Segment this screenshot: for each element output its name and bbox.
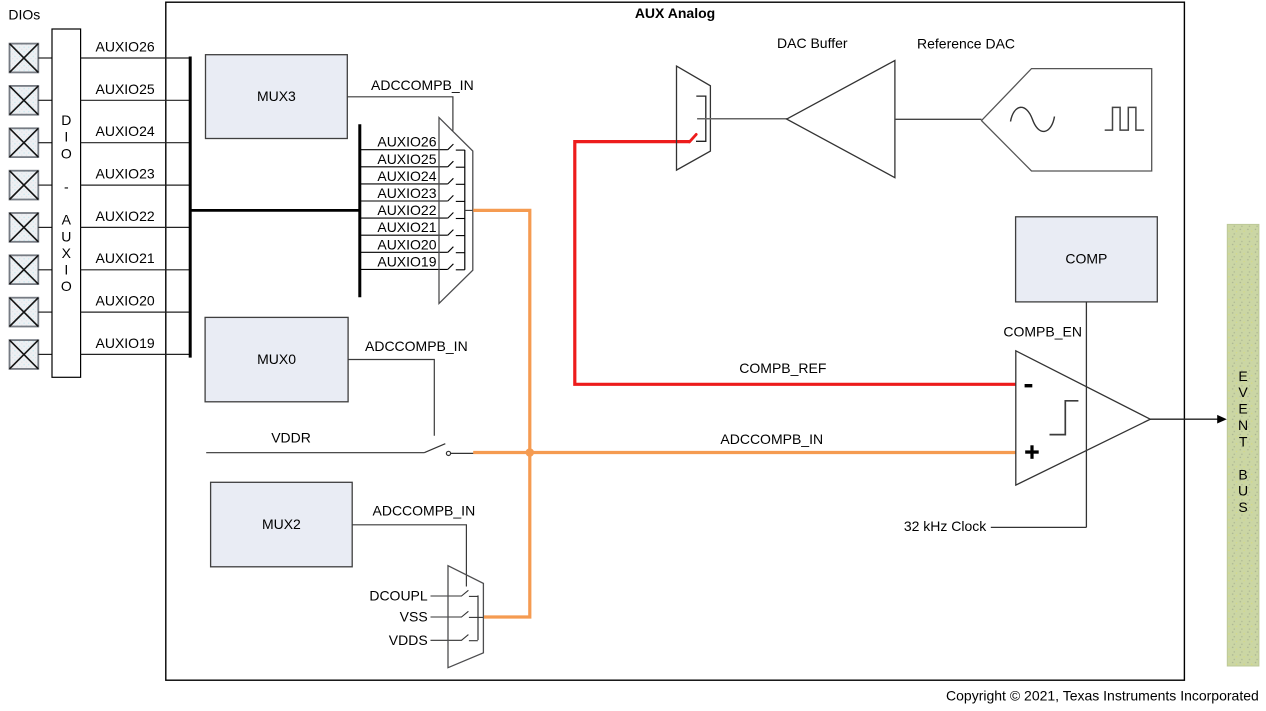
svg-text:32 kHz Clock: 32 kHz Clock [904, 518, 987, 534]
svg-text:AUXIO20: AUXIO20 [96, 293, 155, 309]
outer box AUX Analog [166, 2, 1185, 680]
svg-text:S: S [1238, 499, 1247, 515]
svg-text:Copyright © 2021, Texas Instru: Copyright © 2021, Texas Instruments Inco… [946, 687, 1259, 703]
block COMP [1016, 217, 1158, 302]
svg-text:V: V [1238, 384, 1248, 400]
svg-text:AUXIO26: AUXIO26 [96, 39, 155, 55]
svg-text:Reference DAC: Reference DAC [917, 36, 1015, 52]
bus bar right (thick) [358, 124, 361, 297]
switch VDDR blade [424, 444, 445, 453]
svg-text:A: A [62, 212, 72, 228]
svg-text:T: T [1239, 434, 1248, 450]
switch VDDR contact circle [446, 451, 450, 455]
wire MUX0 ADCCOMPB_IN [348, 360, 434, 436]
svg-text:MUX2: MUX2 [262, 516, 301, 532]
switch AUXIO23 [448, 195, 465, 201]
mux trapezoid (AUXIO analog mux) [439, 118, 473, 304]
svg-text:COMPB_REF: COMPB_REF [739, 360, 826, 376]
wire VDDS [431, 639, 462, 641]
wire AUXIO25 (DIO block to bus) [81, 99, 191, 101]
wire pad1 to DIO block [38, 57, 52, 59]
svg-text:AUXIO24: AUXIO24 [96, 123, 155, 139]
junction dot [526, 448, 535, 457]
wire pad6 to DIO block [38, 269, 52, 271]
svg-text:ADCCOMPB_IN: ADCCOMPB_IN [373, 503, 476, 519]
orange net ADCCOMPB_IN vertical branch [473, 210, 530, 617]
wire DCOUPL [431, 595, 462, 597]
block MUX3 [206, 55, 348, 139]
wire AUXIO20 (DIO block to bus) [81, 311, 191, 313]
svg-text:ADCCOMPB_IN: ADCCOMPB_IN [371, 77, 474, 93]
svg-text:AUXIO22: AUXIO22 [96, 208, 155, 224]
switch AUXIO24 [448, 178, 465, 184]
DAC buffer input mux trapezoid [677, 66, 711, 170]
svg-text:I: I [64, 262, 68, 278]
svg-text:AUXIO22: AUXIO22 [377, 202, 436, 218]
wire Reference DAC to buffer [895, 118, 982, 120]
svg-text:AUXIO26: AUXIO26 [377, 134, 436, 150]
hysteresis symbol [1050, 401, 1079, 435]
wire MUX3 ADCCOMPB_IN to mux [347, 97, 453, 131]
wire pad8 to DIO block [38, 353, 52, 355]
op-amp DAC Buffer [787, 61, 895, 178]
svg-text:X: X [62, 245, 72, 261]
switch AUXIO19 [448, 264, 465, 270]
svg-text:ADCCOMPB_IN: ADCCOMPB_IN [720, 431, 823, 447]
switch DCOUPL [462, 590, 478, 596]
svg-text:-: - [64, 179, 69, 195]
svg-text:E: E [1238, 401, 1247, 417]
wire pad3 to DIO block [38, 142, 52, 144]
EVENT BUS bar [1227, 224, 1259, 666]
wire VSS [431, 616, 462, 618]
svg-text:AUXIO23: AUXIO23 [96, 166, 155, 182]
wire AUXIO23 (DIO block to bus) [81, 184, 191, 186]
svg-text:O: O [61, 145, 72, 161]
bus bar left (thick) [189, 57, 192, 358]
svg-text:COMPB_EN: COMPB_EN [1003, 324, 1082, 340]
svg-text:AUXIO25: AUXIO25 [377, 151, 436, 167]
red net COMPB_REF [575, 142, 1016, 385]
pad DIO6 [10, 255, 39, 284]
wire AUXIO22 (DIO block to bus) [81, 226, 191, 228]
wire AUXIO21 (bus to mux) [360, 234, 448, 236]
wire AUXIO24 (bus to mux) [360, 183, 448, 185]
svg-text:AUXIO19: AUXIO19 [96, 335, 155, 351]
svg-text:DAC Buffer: DAC Buffer [777, 35, 848, 51]
pad DIO2 [10, 86, 39, 115]
wire bracket to buffer [697, 118, 787, 120]
svg-text:AUXIO23: AUXIO23 [377, 185, 436, 201]
svg-text:VDDR: VDDR [271, 430, 311, 446]
svg-text:AUXIO25: AUXIO25 [96, 81, 155, 97]
pad DIO8 [10, 340, 39, 369]
wire switch to orange net [451, 452, 474, 454]
block DIO-AUXIO [52, 29, 81, 377]
sine symbol [1011, 107, 1055, 131]
svg-text:MUX0: MUX0 [257, 351, 296, 367]
wire MUX2 ADCCOMPB_IN [352, 525, 466, 587]
block MUX0 [205, 317, 348, 401]
svg-text:AUXIO19: AUXIO19 [377, 253, 436, 269]
red switch blade (DAC buffer tap) [689, 134, 696, 142]
pad DIO3 [10, 128, 39, 157]
svg-text:MUX3: MUX3 [257, 88, 296, 104]
wire pad2 to DIO block [38, 99, 52, 101]
svg-text:VSS: VSS [400, 609, 428, 625]
switch AUXIO22 [448, 213, 465, 219]
plus input mark [1025, 445, 1039, 459]
pad DIO4 [10, 171, 39, 200]
square wave symbol [1105, 107, 1144, 130]
wire AUXIO22 (bus to mux) [360, 217, 448, 219]
svg-text:O: O [61, 278, 72, 294]
wire 32 kHz Clock [991, 526, 1087, 528]
svg-text:B: B [1238, 466, 1247, 482]
pad DIO7 [10, 298, 39, 327]
block MUX2 [211, 482, 353, 567]
bus link wire (thick horizontal) [189, 209, 361, 212]
wire AUXIO21 (DIO block to bus) [81, 269, 191, 271]
DAC buffer mux inner bracket [696, 96, 706, 141]
svg-text:AUXIO21: AUXIO21 [377, 219, 436, 235]
wire comparator output [1150, 418, 1218, 420]
svg-text:VDDS: VDDS [389, 632, 428, 648]
wire AUXIO23 (bus to mux) [360, 200, 448, 202]
svg-text:AUX Analog: AUX Analog [635, 5, 715, 21]
mux inner output bar [464, 150, 466, 270]
pad DIO5 [10, 213, 39, 242]
wire AUXIO25 (bus to mux) [360, 166, 448, 168]
wire VDDR [206, 452, 424, 454]
svg-text:DIOs: DIOs [8, 7, 40, 23]
pad DIO1 [10, 44, 39, 73]
svg-text:DCOUPL: DCOUPL [369, 588, 428, 604]
svg-text:U: U [61, 228, 71, 244]
power mux trapezoid [448, 566, 483, 668]
label DIO-AUXIO vertical text [61, 112, 72, 294]
svg-text:AUXIO20: AUXIO20 [377, 236, 436, 252]
wire AUXIO26 (DIO block to bus) [81, 57, 191, 59]
switch VSS [462, 611, 484, 617]
power mux inner bar [477, 595, 479, 640]
wire pad5 to DIO block [38, 226, 52, 228]
svg-text:E: E [1238, 368, 1247, 384]
comparator U1 [1016, 351, 1151, 485]
svg-text:N: N [1238, 417, 1248, 433]
arrowhead to event bus [1217, 415, 1227, 424]
wire pad7 to DIO block [38, 311, 52, 313]
svg-text:COMP: COMP [1065, 250, 1107, 266]
switch AUXIO20 [448, 247, 465, 253]
label EVENT BUS [1238, 368, 1248, 515]
wire COMPB_EN / 32kHz vertical [1085, 302, 1087, 528]
wire AUXIO24 (DIO block to bus) [81, 142, 191, 144]
switch AUXIO26 [448, 144, 465, 150]
switch AUXIO21 [448, 230, 465, 236]
orange net ADCCOMPB_IN main horizontal [473, 451, 1016, 454]
svg-text:ADCCOMPB_IN: ADCCOMPB_IN [365, 338, 468, 354]
wire AUXIO20 (bus to mux) [360, 251, 448, 253]
svg-text:D: D [61, 112, 71, 128]
svg-text:AUXIO21: AUXIO21 [96, 250, 155, 266]
switch VDDS [462, 635, 478, 641]
wire inner bar to mux output [465, 209, 473, 211]
wire AUXIO19 (DIO block to bus) [81, 353, 191, 355]
wire AUXIO26 (bus to mux) [360, 149, 448, 151]
svg-text:I: I [64, 129, 68, 145]
wire AUXIO19 (bus to mux) [360, 268, 448, 270]
svg-text:AUXIO24: AUXIO24 [377, 168, 436, 184]
wire pad4 to DIO block [38, 184, 52, 186]
switch AUXIO25 [448, 161, 465, 167]
Reference DAC body [982, 69, 1152, 171]
minus input mark [1025, 384, 1033, 387]
svg-text:U: U [1238, 483, 1248, 499]
